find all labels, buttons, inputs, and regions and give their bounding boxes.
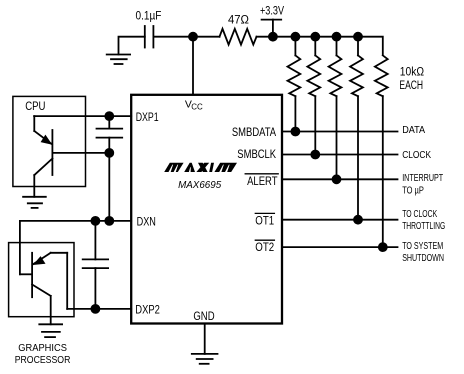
svg-text:DXP1: DXP1 (136, 110, 159, 124)
wire: C1 to VCC node (153, 36, 193, 38)
svg-text:THROTTLING: THROTTLING (402, 221, 445, 232)
node DXP1/C2 (105, 112, 113, 120)
svg-text:INTERRUPT: INTERRUPT (402, 173, 443, 184)
wire SMBDATA row (282, 131, 398, 133)
svg-text:CC: CC (191, 102, 203, 111)
resistor 47ohm (220, 29, 257, 45)
node SMBCLK/R2 (311, 151, 319, 159)
node OT2/R5 (379, 243, 387, 251)
svg-text:CLOCK: CLOCK (402, 150, 431, 161)
wire: R47 to +3.3V rail, across pull-up taps (257, 37, 383, 55)
wire DXP1 row (34, 115, 131, 117)
svg-text:GND: GND (193, 309, 214, 323)
svg-text:EACH: EACH (399, 80, 423, 92)
node ALERT/R3 (333, 175, 341, 183)
labels (136, 6, 425, 93)
svg-text:MAX6695: MAX6695 (178, 179, 221, 191)
resistor RP2 10k (307, 37, 320, 155)
node +3.3V junction (269, 33, 277, 41)
svg-text:SMBCLK: SMBCLK (237, 147, 276, 161)
svg-text:DATA: DATA (402, 125, 425, 136)
svg-text:TO CLOCK: TO CLOCK (402, 209, 437, 220)
transistor Q1 (CPU) (34, 116, 109, 197)
power +3.3V (262, 20, 282, 37)
node C2 bottom / base (105, 149, 113, 157)
node DXP2/C3 (91, 305, 99, 313)
GRAPHICS PROCESSOR box (9, 243, 74, 317)
ground (top-left, for 0.1uF cap) (107, 37, 145, 64)
wire: VCC node to resistor R47 (193, 36, 220, 38)
transistor Q2 (GPU) (20, 221, 67, 324)
wire DXP2 row (67, 308, 131, 310)
wire: VCC node down to VCC pin (192, 37, 194, 94)
arrowhead Q2 emitter (33, 256, 46, 265)
resistor RP5 10k (375, 55, 388, 247)
capacitor C1 0.1uF (145, 26, 154, 48)
overline ALERT (245, 173, 278, 175)
overline OT2 (255, 239, 274, 241)
svg-text:ALERT: ALERT (247, 174, 278, 188)
capacitor C3 (DXN-DXP2) (83, 221, 108, 309)
svg-text:+3.3V: +3.3V (260, 6, 284, 18)
ground (IC GND) (192, 354, 218, 364)
svg-text:GRAPHICS: GRAPHICS (18, 343, 67, 354)
node rail tap 2 (311, 33, 319, 41)
resistor RP1 10k (288, 37, 301, 132)
svg-text:47Ω: 47Ω (228, 15, 249, 27)
node rail tap 1 (291, 33, 299, 41)
svg-text:OT1: OT1 (255, 214, 274, 228)
node rail tap 4 (354, 33, 362, 41)
ground (GPU collector) (39, 324, 62, 337)
node OT1/R4 (354, 216, 362, 224)
node DXN/C2 (105, 217, 113, 225)
svg-text:10kΩ: 10kΩ (400, 67, 425, 79)
capacitor C2 (DXP1-DXN) (97, 116, 123, 221)
wire SMBCLK row (282, 154, 398, 156)
wire OT2 row (282, 246, 398, 248)
svg-text:OT2: OT2 (255, 240, 274, 254)
node DXN/C3 (91, 217, 99, 225)
resistor RP3 10k (329, 37, 342, 180)
svg-text:PROCESSOR: PROCESSOR (15, 355, 71, 366)
svg-text:TO µP: TO µP (402, 186, 424, 197)
wire ALERT row (282, 178, 398, 180)
node VCC junction (189, 33, 197, 41)
node SMBDATA/R1 (291, 128, 299, 136)
svg-text:DXN: DXN (137, 215, 156, 229)
ground (CPU collector) (23, 197, 46, 208)
wire GND pin (204, 324, 206, 354)
resistor RP4 10k (350, 37, 363, 220)
wire DXN row (20, 220, 131, 222)
node rail tap 3 (333, 33, 341, 41)
svg-text:TO SYSTEM: TO SYSTEM (402, 241, 443, 252)
IC U1 MAX6695 box (131, 95, 282, 324)
svg-text:0.1µF: 0.1µF (136, 11, 162, 23)
arrowhead Q1 emitter (41, 135, 53, 145)
svg-text:CPU: CPU (25, 99, 45, 113)
overline OT1 (255, 212, 274, 214)
CPU box (13, 96, 86, 186)
logo MAXIM (164, 163, 237, 172)
wire OT1 row (282, 219, 398, 221)
svg-text:SMBDATA: SMBDATA (232, 125, 276, 139)
svg-text:DXP2: DXP2 (135, 302, 160, 316)
svg-text:SHUTDOWN: SHUTDOWN (402, 253, 444, 264)
